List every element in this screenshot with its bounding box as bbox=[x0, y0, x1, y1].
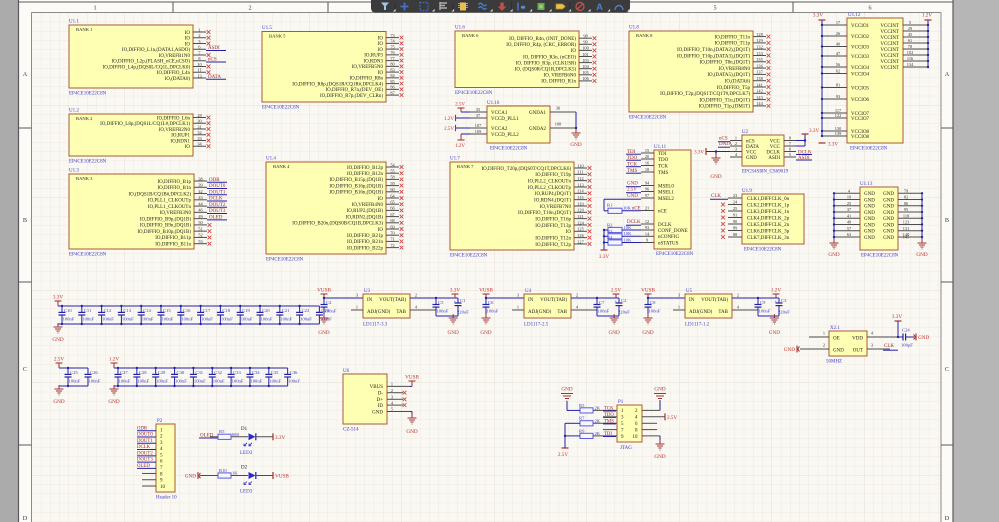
svg-text:DOUT1: DOUT1 bbox=[137, 439, 153, 444]
svg-text:IO,PLL1_CLKOUTn: IO,PLL1_CLKOUTn bbox=[148, 205, 192, 210]
svg-text:58: 58 bbox=[390, 175, 394, 180]
svg-text:R1: R1 bbox=[607, 203, 613, 208]
svg-text:BANK 2: BANK 2 bbox=[76, 116, 93, 121]
svg-text:81: 81 bbox=[836, 83, 840, 88]
svg-text:1.2V: 1.2V bbox=[109, 357, 119, 363]
svg-text:2.5V: 2.5V bbox=[627, 188, 637, 193]
svg-text:IO,DIFFIO_B21n: IO,DIFFIO_B21n bbox=[347, 240, 383, 245]
svg-text:C29: C29 bbox=[158, 370, 166, 375]
svg-text:114: 114 bbox=[577, 189, 584, 194]
svg-text:8: 8 bbox=[198, 56, 200, 61]
svg-text:90: 90 bbox=[733, 219, 737, 224]
svg-text:104: 104 bbox=[582, 64, 589, 69]
svg-text:IO: IO bbox=[185, 37, 191, 42]
svg-text:R3: R3 bbox=[607, 229, 613, 234]
svg-text:VUSB: VUSB bbox=[317, 288, 331, 294]
svg-text:U3: U3 bbox=[364, 289, 371, 294]
svg-text:VOUT(TAB): VOUT(TAB) bbox=[379, 298, 406, 303]
svg-text:IO, DIFFIO_R1n: IO, DIFFIO_R1n bbox=[541, 80, 576, 85]
svg-text:CLK: CLK bbox=[884, 344, 894, 349]
svg-text:115: 115 bbox=[577, 195, 583, 200]
svg-text:IO,RDN3: IO,RDN3 bbox=[363, 59, 383, 64]
svg-text:X2.1: X2.1 bbox=[830, 326, 840, 331]
svg-text:680: 680 bbox=[232, 432, 240, 437]
svg-text:C3: C3 bbox=[781, 298, 787, 303]
svg-text:VUSB: VUSB bbox=[275, 474, 289, 480]
svg-text:100nF: 100nF bbox=[759, 309, 771, 314]
svg-text:41: 41 bbox=[847, 213, 851, 218]
svg-text:5: 5 bbox=[789, 152, 791, 157]
svg-text:U6: U6 bbox=[343, 369, 350, 374]
svg-text:DOUT0: DOUT0 bbox=[209, 184, 226, 189]
svg-text:R5: R5 bbox=[219, 429, 225, 434]
svg-text:IO,DIFFIO_B9n,(DQ1B): IO,DIFFIO_B9n,(DQ1B) bbox=[140, 224, 191, 229]
svg-text:IO: IO bbox=[378, 36, 384, 41]
svg-text:IO,DIFFIO_T11p: IO,DIFFIO_T11p bbox=[714, 42, 750, 47]
svg-text:IO: IO bbox=[378, 228, 384, 233]
svg-text:DCLK: DCLK bbox=[658, 223, 672, 228]
svg-text:BANK 7: BANK 7 bbox=[457, 164, 474, 169]
svg-text:GND: GND bbox=[864, 236, 875, 241]
svg-text:IO: IO bbox=[378, 48, 384, 53]
svg-text:100nF: 100nF bbox=[269, 378, 281, 383]
svg-text:2: 2 bbox=[248, 5, 251, 12]
svg-text:IO,DIFFIO_T13p: IO,DIFFIO_T13p bbox=[535, 224, 571, 229]
svg-text:220uF: 220uF bbox=[778, 310, 790, 315]
svg-text:OUT: OUT bbox=[853, 349, 863, 354]
svg-text:C7: C7 bbox=[599, 300, 605, 305]
svg-text:IO,RUP3: IO,RUP3 bbox=[364, 54, 383, 59]
svg-text:132: 132 bbox=[756, 45, 762, 50]
svg-text:VCCD_PLL1: VCCD_PLL1 bbox=[491, 117, 519, 122]
svg-text:nCS: nCS bbox=[208, 58, 217, 63]
svg-text:18: 18 bbox=[645, 167, 649, 172]
svg-text:EP4CE10E22C8N: EP4CE10E22C8N bbox=[262, 106, 300, 111]
svg-text:DATA: DATA bbox=[208, 75, 221, 80]
svg-text:35: 35 bbox=[476, 107, 480, 112]
svg-text:IO: IO bbox=[378, 42, 384, 47]
svg-text:100nF: 100nF bbox=[325, 309, 337, 314]
svg-text:MSEL0: MSEL0 bbox=[658, 184, 674, 189]
svg-text:C18: C18 bbox=[222, 308, 230, 313]
svg-text:108: 108 bbox=[555, 122, 561, 127]
svg-text:IO: IO bbox=[185, 31, 191, 36]
svg-text:100nF: 100nF bbox=[487, 309, 499, 314]
svg-text:IO,RUP4,(DQ1T): IO,RUP4,(DQ1T) bbox=[535, 192, 571, 197]
svg-text:100nF: 100nF bbox=[69, 378, 81, 383]
svg-text:nCS: nCS bbox=[719, 137, 728, 142]
svg-text:nCE: nCE bbox=[658, 209, 667, 214]
svg-text:+: + bbox=[775, 301, 778, 306]
svg-text:U1.10: U1.10 bbox=[487, 101, 500, 106]
svg-text:C26: C26 bbox=[90, 370, 98, 375]
svg-text:IO,VREFB1N0: IO,VREFB1N0 bbox=[159, 54, 191, 59]
svg-text:ASDI: ASDI bbox=[208, 46, 220, 51]
svg-text:2: 2 bbox=[198, 33, 200, 38]
svg-text:IO,DIFFIO_B11p: IO,DIFFIO_B11p bbox=[155, 236, 191, 241]
svg-text:IO,DIFFIO_B12n: IO,DIFFIO_B12n bbox=[347, 172, 383, 177]
svg-text:91: 91 bbox=[733, 213, 737, 218]
svg-text:IO: IO bbox=[378, 197, 384, 202]
svg-text:C30: C30 bbox=[177, 370, 185, 375]
svg-text:VCCIO2: VCCIO2 bbox=[851, 35, 870, 40]
svg-text:IO,DIFFIO_T5p: IO,DIFFIO_T5p bbox=[717, 86, 751, 91]
svg-text:C21: C21 bbox=[282, 308, 290, 313]
svg-text:107: 107 bbox=[475, 123, 482, 128]
svg-text:IO,RUP1: IO,RUP1 bbox=[171, 134, 190, 139]
svg-text:BANK 1: BANK 1 bbox=[76, 27, 93, 32]
svg-text:83: 83 bbox=[390, 67, 394, 72]
svg-text:IO,(DATA6): IO,(DATA6) bbox=[725, 80, 751, 85]
svg-text:DOUT2: DOUT2 bbox=[137, 451, 153, 456]
svg-text:3: 3 bbox=[678, 293, 680, 298]
svg-text:GND: GND bbox=[570, 142, 581, 148]
svg-text:106: 106 bbox=[582, 76, 589, 81]
svg-text:GND: GND bbox=[864, 198, 875, 203]
svg-text:62: 62 bbox=[836, 69, 840, 74]
svg-text:GND: GND bbox=[883, 217, 894, 222]
svg-text:BANK 4: BANK 4 bbox=[273, 164, 290, 169]
svg-text:73: 73 bbox=[390, 33, 394, 38]
svg-text:55: 55 bbox=[390, 169, 394, 174]
svg-text:C10: C10 bbox=[64, 308, 72, 313]
svg-text:C2: C2 bbox=[621, 298, 627, 303]
svg-text:85: 85 bbox=[390, 79, 394, 84]
svg-text:CLK6,DIFFCLK_3p: CLK6,DIFFCLK_3p bbox=[747, 229, 790, 234]
svg-text:IO,DIFFIO_T16n,(DQ1T): IO,DIFFIO_T16n,(DQ1T) bbox=[518, 211, 571, 216]
svg-text:3.3V: 3.3V bbox=[450, 288, 460, 294]
svg-text:2: 2 bbox=[735, 141, 737, 146]
svg-text:D1: D1 bbox=[241, 427, 248, 432]
svg-text:U1.12: U1.12 bbox=[848, 13, 861, 18]
svg-text:EP4CE10E22C8N: EP4CE10E22C8N bbox=[744, 248, 782, 253]
svg-text:100nF: 100nF bbox=[162, 316, 174, 321]
svg-text:1: 1 bbox=[356, 305, 358, 310]
svg-text:12: 12 bbox=[645, 219, 649, 224]
svg-text:GND: GND bbox=[480, 330, 491, 336]
svg-text:C16: C16 bbox=[183, 308, 191, 313]
svg-text:VCCD_PLL2: VCCD_PLL2 bbox=[491, 133, 519, 138]
svg-text:C22: C22 bbox=[302, 308, 310, 313]
svg-text:89: 89 bbox=[733, 226, 737, 231]
svg-text:VCCIO8: VCCIO8 bbox=[851, 135, 870, 140]
svg-text:43: 43 bbox=[198, 195, 202, 200]
svg-text:95: 95 bbox=[904, 207, 908, 212]
svg-text:GND: GND bbox=[746, 156, 757, 161]
svg-text:IO,DIFFIO_L8p,(DQS1L/CQ1L#,DPC: IO,DIFFIO_L8p,(DQS1L/CQ1L#,DPCLK1) bbox=[100, 122, 190, 127]
svg-text:R2: R2 bbox=[607, 223, 613, 228]
svg-text:125: 125 bbox=[577, 227, 583, 232]
svg-text:TCK: TCK bbox=[627, 162, 637, 167]
svg-text:98: 98 bbox=[583, 34, 587, 39]
svg-text:2.5V: 2.5V bbox=[54, 357, 64, 363]
svg-text:GND: GND bbox=[883, 198, 894, 203]
svg-text:IO,(DATA5),(DQ1T): IO,(DATA5),(DQ1T) bbox=[707, 73, 750, 78]
svg-text:IO: IO bbox=[185, 42, 191, 47]
svg-text:IO, DIFFIO_R3p, (CLKUSR): IO, DIFFIO_R3p, (CLKUSR) bbox=[516, 61, 577, 66]
svg-text:nCONFIG: nCONFIG bbox=[658, 235, 680, 240]
svg-text:25: 25 bbox=[733, 206, 737, 211]
svg-text:28: 28 bbox=[197, 113, 201, 118]
svg-text:3: 3 bbox=[391, 395, 393, 400]
svg-text:C11: C11 bbox=[84, 308, 92, 313]
svg-text:VCCINT: VCCINT bbox=[880, 30, 899, 35]
svg-text:23: 23 bbox=[733, 193, 737, 198]
svg-text:70: 70 bbox=[390, 231, 394, 236]
svg-text:VOUT(TAB): VOUT(TAB) bbox=[701, 298, 728, 303]
svg-text:GND: GND bbox=[627, 194, 638, 199]
svg-text:IO,RDN2,(DQ1B): IO,RDN2,(DQ1B) bbox=[346, 215, 384, 220]
svg-text:GND: GND bbox=[654, 387, 665, 393]
svg-text:C4: C4 bbox=[326, 300, 332, 305]
svg-text:ODR: ODR bbox=[209, 178, 220, 183]
svg-text:EPCS4SI8N_CS69019: EPCS4SI8N_CS69019 bbox=[742, 170, 789, 175]
svg-text:U1.3: U1.3 bbox=[69, 169, 79, 174]
svg-text:C12: C12 bbox=[104, 308, 112, 313]
svg-text:U1.11: U1.11 bbox=[654, 145, 667, 150]
svg-text:IO,DIFFIO_B12p: IO,DIFFIO_B12p bbox=[347, 166, 383, 171]
svg-text:3.3V: 3.3V bbox=[599, 254, 609, 260]
svg-text:69: 69 bbox=[390, 224, 394, 229]
svg-text:1: 1 bbox=[391, 382, 393, 387]
svg-text:5: 5 bbox=[391, 407, 393, 412]
svg-text:IO,DIFFIO_B20n,(DQS0B/CQ1B,DPC: IO,DIFFIO_B20n,(DQS0B/CQ1B,DPCLK3) bbox=[292, 222, 383, 227]
svg-text:ADJ(GND): ADJ(GND) bbox=[367, 310, 391, 315]
svg-text:45: 45 bbox=[908, 32, 912, 37]
svg-text:11: 11 bbox=[197, 68, 201, 73]
svg-text:3.3V: 3.3V bbox=[892, 314, 902, 320]
svg-text:IO,RDN4,(DQ1T): IO,RDN4,(DQ1T) bbox=[534, 198, 571, 203]
svg-text:51: 51 bbox=[198, 226, 202, 231]
svg-text:GND: GND bbox=[833, 349, 844, 354]
svg-text:C27: C27 bbox=[120, 370, 128, 375]
svg-text:5: 5 bbox=[713, 5, 716, 12]
svg-text:100nF: 100nF bbox=[201, 316, 213, 321]
svg-text:3.3V: 3.3V bbox=[53, 295, 63, 301]
svg-text:105: 105 bbox=[582, 70, 588, 75]
svg-text:U1.6: U1.6 bbox=[455, 26, 465, 31]
svg-text:GND: GND bbox=[864, 205, 875, 210]
svg-text:GND: GND bbox=[108, 399, 119, 405]
svg-text:GND: GND bbox=[864, 211, 875, 216]
svg-text:IO, VREFB6N0: IO, VREFB6N0 bbox=[544, 74, 577, 79]
svg-text:GND: GND bbox=[406, 429, 417, 435]
svg-text:15: 15 bbox=[645, 148, 649, 153]
svg-text:3.3V: 3.3V bbox=[813, 13, 823, 19]
svg-text:IO,RUP2,(DQ1B): IO,RUP2,(DQ1B) bbox=[347, 209, 384, 214]
svg-text:ID: ID bbox=[378, 404, 384, 409]
svg-text:GND: GND bbox=[916, 252, 927, 258]
svg-text:DATA: DATA bbox=[746, 145, 759, 150]
svg-text:GND: GND bbox=[883, 230, 894, 235]
svg-text:3.3V: 3.3V bbox=[828, 142, 838, 148]
svg-text:IO,PLL2_CLKOUTn: IO,PLL2_CLKOUTn bbox=[528, 179, 572, 184]
svg-text:IO,VREFB7N0: IO,VREFB7N0 bbox=[540, 205, 572, 210]
svg-text:C19: C19 bbox=[242, 308, 250, 313]
svg-text:63: 63 bbox=[847, 232, 851, 237]
svg-text:123: 123 bbox=[903, 220, 909, 225]
svg-text:VCCA1: VCCA1 bbox=[491, 111, 508, 116]
svg-text:126: 126 bbox=[577, 233, 584, 238]
svg-text:100nF: 100nF bbox=[320, 316, 332, 321]
svg-text:TAB: TAB bbox=[557, 310, 567, 315]
svg-text:C: C bbox=[23, 366, 27, 373]
svg-text:10: 10 bbox=[160, 485, 166, 490]
svg-text:128: 128 bbox=[756, 32, 762, 37]
svg-text:100nF: 100nF bbox=[250, 378, 262, 383]
svg-text:LD1117-1.2: LD1117-1.2 bbox=[685, 323, 710, 328]
svg-text:100nF: 100nF bbox=[300, 316, 312, 321]
svg-text:R7: R7 bbox=[579, 416, 585, 421]
svg-text:IO,DIFFIO_B9p,(DQ1B): IO,DIFFIO_B9p,(DQ1B) bbox=[140, 217, 191, 222]
svg-text:100nF: 100nF bbox=[437, 309, 449, 314]
svg-text:1.2V: 1.2V bbox=[922, 13, 932, 19]
svg-text:GND: GND bbox=[828, 252, 839, 258]
svg-text:79: 79 bbox=[904, 189, 908, 194]
svg-text:IO,DIFFIO_B16p,(DQ1B): IO,DIFFIO_B16p,(DQ1B) bbox=[329, 184, 383, 189]
svg-text:1: 1 bbox=[93, 5, 96, 12]
svg-text:LED3: LED3 bbox=[240, 490, 253, 495]
svg-text:2: 2 bbox=[391, 388, 393, 393]
svg-text:138: 138 bbox=[756, 76, 762, 81]
svg-text:EP4CE10E22C8N: EP4CE10E22C8N bbox=[656, 252, 694, 257]
svg-text:IO,DIFFIO_T2p,(DQS1T/CQ1T#,DPC: IO,DIFFIO_T2p,(DQS1T/CQ1T#,DPCLK7) bbox=[660, 92, 750, 97]
svg-text:DOUT3: DOUT3 bbox=[137, 458, 153, 463]
svg-text:8: 8 bbox=[789, 136, 791, 141]
svg-text:135: 135 bbox=[756, 57, 762, 62]
svg-text:IO,DIFFIO_L4n: IO,DIFFIO_L4n bbox=[157, 71, 191, 76]
svg-text:10K: 10K bbox=[624, 237, 633, 242]
svg-text:TDI: TDI bbox=[658, 152, 667, 157]
svg-text:IO,(DATA0): IO,(DATA0) bbox=[165, 77, 191, 82]
svg-text:3: 3 bbox=[871, 343, 873, 348]
svg-text:P2: P2 bbox=[157, 419, 163, 424]
svg-text:GND: GND bbox=[654, 454, 665, 460]
svg-text:VCCINT: VCCINT bbox=[880, 60, 899, 65]
svg-text:100nF: 100nF bbox=[122, 316, 134, 321]
svg-text:10K: 10K bbox=[624, 225, 633, 230]
svg-text:VDD: VDD bbox=[852, 337, 863, 342]
svg-text:VCC: VCC bbox=[770, 139, 781, 144]
svg-text:21: 21 bbox=[645, 206, 649, 211]
svg-text:93: 93 bbox=[645, 225, 649, 230]
svg-text:3.3V: 3.3V bbox=[694, 151, 704, 156]
svg-text:3: 3 bbox=[198, 39, 200, 44]
svg-text:R9: R9 bbox=[579, 428, 585, 433]
svg-text:ODR: ODR bbox=[137, 426, 148, 431]
svg-text:U1.8: U1.8 bbox=[629, 26, 639, 31]
svg-text:IO,DIFFIO_T12n: IO,DIFFIO_T12n bbox=[535, 236, 571, 241]
svg-text:GND: GND bbox=[642, 330, 653, 336]
svg-text:VCCIO4: VCCIO4 bbox=[851, 72, 870, 77]
svg-text:TAB: TAB bbox=[718, 310, 728, 315]
svg-text:GND: GND bbox=[52, 337, 63, 343]
svg-text:2K: 2K bbox=[595, 418, 601, 423]
svg-text:144: 144 bbox=[756, 101, 763, 106]
svg-text:52: 52 bbox=[198, 233, 202, 238]
svg-text:2: 2 bbox=[823, 343, 825, 348]
svg-text:VUSB: VUSB bbox=[405, 375, 419, 381]
svg-text:121: 121 bbox=[577, 214, 583, 219]
svg-text:IO,DIFFIO_B1n: IO,DIFFIO_B1n bbox=[158, 186, 192, 191]
svg-text:IO,RDN1: IO,RDN1 bbox=[170, 139, 190, 144]
svg-text:60: 60 bbox=[390, 187, 394, 192]
svg-text:LD1117-2.5: LD1117-2.5 bbox=[524, 323, 549, 328]
svg-text:1.2V: 1.2V bbox=[444, 117, 454, 122]
svg-text:GND: GND bbox=[883, 211, 894, 216]
svg-text:C9: C9 bbox=[760, 300, 766, 305]
svg-text:110: 110 bbox=[577, 163, 583, 168]
svg-text:C31: C31 bbox=[195, 370, 203, 375]
svg-text:2.5V: 2.5V bbox=[455, 103, 465, 108]
svg-text:50: 50 bbox=[198, 220, 202, 225]
svg-text:3: 3 bbox=[517, 293, 519, 298]
svg-text:IO, (DQS0R/CQ1R,DPCLK5): IO, (DQS0R/CQ1R,DPCLK5) bbox=[515, 68, 577, 73]
svg-text:A: A bbox=[23, 71, 28, 78]
svg-text:IO,DIFFIO_T10n,(DATA2),(DQ1T): IO,DIFFIO_T10n,(DATA2),(DQ1T) bbox=[677, 48, 750, 53]
svg-text:72: 72 bbox=[390, 243, 394, 248]
svg-text:10: 10 bbox=[633, 435, 639, 440]
svg-text:+: + bbox=[454, 301, 457, 306]
svg-text:R4: R4 bbox=[607, 235, 613, 240]
svg-text:C14: C14 bbox=[143, 308, 151, 313]
svg-text:68: 68 bbox=[390, 218, 394, 223]
svg-text:DOUT1: DOUT1 bbox=[209, 190, 226, 195]
svg-text:C: C bbox=[945, 366, 949, 373]
svg-text:VCCIO6: VCCIO6 bbox=[851, 98, 870, 103]
svg-text:139: 139 bbox=[835, 131, 841, 136]
svg-text:13: 13 bbox=[197, 73, 201, 78]
svg-text:VCCIO5: VCCIO5 bbox=[851, 86, 870, 91]
svg-text:122: 122 bbox=[835, 113, 841, 118]
svg-text:IO,DIFFIO_R8n: IO,DIFFIO_R8n bbox=[350, 77, 384, 82]
svg-text:1: 1 bbox=[517, 305, 519, 310]
svg-text:VCCIO4: VCCIO4 bbox=[851, 66, 870, 71]
svg-text:ASDI: ASDI bbox=[768, 156, 780, 161]
svg-text:JTAG: JTAG bbox=[620, 446, 632, 451]
svg-text:nCS: nCS bbox=[746, 139, 755, 144]
svg-text:IO,DIFFIO_T11n: IO,DIFFIO_T11n bbox=[714, 35, 750, 40]
svg-text:143: 143 bbox=[756, 95, 762, 100]
svg-text:10: 10 bbox=[197, 62, 201, 67]
svg-text:C5: C5 bbox=[438, 300, 444, 305]
svg-text:B: B bbox=[945, 217, 949, 224]
svg-text:C6: C6 bbox=[488, 300, 494, 305]
svg-text:GND: GND bbox=[883, 236, 894, 241]
svg-text:2.5V: 2.5V bbox=[611, 288, 621, 294]
svg-text:VCC: VCC bbox=[746, 150, 757, 155]
svg-text:100nF: 100nF bbox=[156, 378, 168, 383]
svg-text:133: 133 bbox=[756, 51, 762, 56]
svg-text:DOUT0: DOUT0 bbox=[137, 433, 153, 438]
svg-text:137: 137 bbox=[756, 70, 763, 75]
svg-text:20: 20 bbox=[645, 154, 649, 159]
svg-text:BANK 5: BANK 5 bbox=[269, 34, 286, 39]
svg-text:100nF: 100nF bbox=[213, 378, 225, 383]
svg-text:100nF: 100nF bbox=[261, 316, 273, 321]
svg-text:GND: GND bbox=[448, 330, 459, 336]
svg-text:OE: OE bbox=[833, 337, 840, 342]
svg-text:CLK1,DIFFCLK_0n: CLK1,DIFFCLK_0n bbox=[747, 197, 790, 202]
svg-text:TCK: TCK bbox=[658, 164, 668, 169]
svg-text:IO,PLL1_CLKOUTp: IO,PLL1_CLKOUTp bbox=[148, 199, 192, 204]
svg-text:VCCINT: VCCINT bbox=[880, 48, 899, 53]
svg-text:80: 80 bbox=[390, 62, 394, 67]
svg-text:101: 101 bbox=[582, 52, 588, 57]
svg-text:IO,DIFFIO_T1p,(DM1T): IO,DIFFIO_T1p,(DM1T) bbox=[699, 105, 751, 110]
svg-text:CLK4,DIFFCLK_2p: CLK4,DIFFCLK_2p bbox=[747, 216, 790, 221]
svg-text:BANK 3: BANK 3 bbox=[76, 176, 93, 181]
